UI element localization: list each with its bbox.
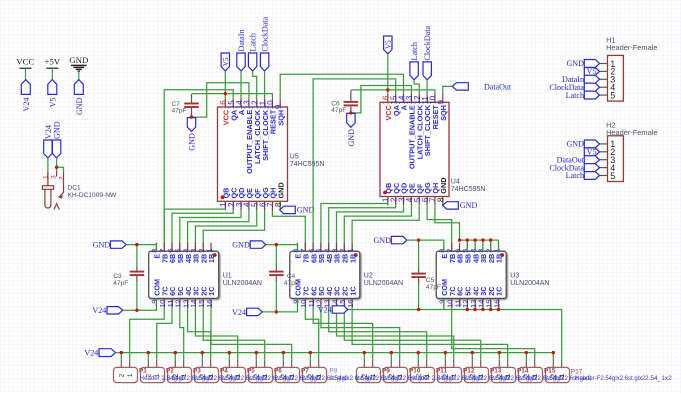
svg-text:U5: U5 bbox=[290, 154, 299, 161]
svg-text:V5: V5 bbox=[222, 57, 230, 66]
U1 top pin names bbox=[153, 254, 217, 263]
H1 pin 1 stub and flag GND bbox=[600, 59, 616, 69]
svg-text:1: 1 bbox=[235, 373, 242, 377]
svg-text:1B: 1B bbox=[495, 254, 504, 263]
svg-text:DataIn: DataIn bbox=[237, 29, 246, 51]
svg-text:1: 1 bbox=[154, 373, 161, 377]
svg-text:V24: V24 bbox=[44, 125, 53, 139]
svg-text:GND: GND bbox=[53, 121, 62, 139]
connector header P3 2-pin bbox=[195, 360, 219, 383]
wire U1 7C to connector column 1 bbox=[130, 307, 165, 360]
svg-text:V5: V5 bbox=[48, 98, 57, 108]
svg-text:GND: GND bbox=[373, 236, 391, 245]
wire V24 flag to U1 COM pin bbox=[123, 298, 157, 310]
svg-text:DataOut: DataOut bbox=[484, 82, 512, 91]
H1 pin 3 stub and flag DataIn bbox=[600, 75, 616, 85]
ground symbol GND bbox=[69, 55, 88, 80]
svg-text:U4: U4 bbox=[451, 179, 460, 186]
U1 reference designator and value bbox=[223, 273, 262, 287]
U2 bottom pin stubs bbox=[298, 298, 353, 307]
wire U4 QF to U2 1B bbox=[352, 205, 419, 251]
svg-text:P8: P8 bbox=[330, 367, 338, 374]
wire rail to connector 17 pin2 bbox=[552, 353, 554, 360]
H1 title bbox=[606, 36, 657, 53]
U3 bottom pin numbers bbox=[438, 300, 502, 308]
net flag DataOut bbox=[452, 83, 468, 90]
connector header P6 2-pin bbox=[276, 360, 300, 383]
svg-text:P3: P3 bbox=[193, 367, 201, 374]
U3 bottom pin names bbox=[440, 279, 504, 296]
U2 top pin names bbox=[294, 254, 358, 263]
wire U2 5C to connector bbox=[321, 307, 400, 360]
U2 reference designator and value bbox=[364, 273, 403, 287]
wire U5 QD to U1 4B bbox=[180, 210, 241, 251]
svg-text:GND: GND bbox=[69, 55, 88, 65]
svg-text:GND: GND bbox=[347, 129, 356, 147]
wire U2 4C to connector bbox=[329, 307, 427, 360]
wire V24 supply rail bbox=[116, 352, 554, 354]
connector header P14 2-pin bbox=[519, 360, 543, 383]
U5 bottom pin numbers bbox=[219, 202, 283, 207]
svg-text:V24: V24 bbox=[22, 98, 31, 112]
connector header P4 2-pin bbox=[222, 360, 246, 383]
svg-text:P5: P5 bbox=[247, 367, 255, 374]
H2 title bbox=[606, 121, 657, 138]
svg-text:8: 8 bbox=[274, 202, 283, 207]
svg-text:1B: 1B bbox=[348, 254, 357, 263]
power symbol +5V (net V5) bbox=[44, 57, 60, 80]
wire U4 SQH to DataOut flag bbox=[443, 86, 452, 93]
svg-text:1C: 1C bbox=[348, 287, 357, 296]
wires U3 input bus pin stubs bbox=[467, 240, 490, 251]
power symbol VCC (net V24) bbox=[16, 57, 34, 80]
svg-text:1: 1 bbox=[208, 373, 215, 377]
svg-text:+5V: +5V bbox=[44, 57, 60, 67]
svg-text:P14: P14 bbox=[517, 367, 529, 374]
svg-text:1: 1 bbox=[397, 373, 404, 377]
connector header P10 2-pin bbox=[411, 360, 435, 383]
connector header P9 2-pin bbox=[384, 360, 408, 383]
svg-text:GND: GND bbox=[439, 177, 448, 193]
U3 bottom pin stubs bbox=[444, 298, 499, 307]
svg-text:Latch: Latch bbox=[566, 171, 584, 180]
wire rail to connector 2 pin2 bbox=[147, 353, 149, 360]
wire U5 QE to U1 3B bbox=[188, 210, 249, 251]
svg-text:1: 1 bbox=[127, 373, 134, 377]
wire GND flag to U2 E pin bbox=[266, 245, 298, 252]
svg-text:1: 1 bbox=[205, 248, 214, 252]
svg-text:74HC595N: 74HC595N bbox=[451, 186, 486, 193]
svg-text:U2: U2 bbox=[364, 273, 373, 280]
svg-text:P13: P13 bbox=[490, 367, 502, 374]
svg-text:2: 2 bbox=[361, 373, 368, 377]
U4 bottom pin names bbox=[384, 177, 448, 193]
svg-text:GND: GND bbox=[460, 201, 478, 210]
header H2 Header-Female body bbox=[608, 136, 624, 182]
svg-text:1: 1 bbox=[451, 373, 458, 377]
svg-text:1: 1 bbox=[532, 373, 539, 377]
svg-text:1: 1 bbox=[559, 373, 566, 377]
connector header P9 2-pin bbox=[357, 360, 381, 383]
U5 top pin stubs bbox=[225, 98, 280, 107]
svg-text:VCC: VCC bbox=[16, 57, 34, 67]
svg-text:2: 2 bbox=[58, 176, 65, 180]
connector header P11 2-pin bbox=[438, 360, 462, 383]
U4 bottom pin stubs bbox=[388, 197, 443, 206]
svg-text:V5: V5 bbox=[587, 148, 597, 157]
wire U4 OUTPUT_ENABLE to GND at C6 bbox=[351, 86, 412, 113]
svg-text:5: 5 bbox=[610, 171, 615, 181]
U1 bottom pin names bbox=[153, 279, 217, 296]
svg-text:2.54_1x2: 2.54_1x2 bbox=[645, 375, 672, 382]
U4 bottom pin numbers bbox=[382, 197, 446, 202]
wire V24 flag to U2 COM pin bbox=[262, 298, 297, 312]
capacitor C6 47pF bbox=[344, 91, 359, 114]
connector header P0 2-pin bbox=[114, 360, 138, 383]
wire GND flag to U3 E pin bbox=[407, 240, 444, 251]
svg-text:47pF: 47pF bbox=[331, 107, 346, 114]
wire rail to connector 5 pin2 bbox=[228, 353, 230, 360]
svg-text:GND: GND bbox=[566, 59, 584, 68]
svg-text:1: 1 bbox=[262, 373, 269, 377]
svg-text:KH-DC1009-NW: KH-DC1009-NW bbox=[68, 192, 118, 199]
capacitor C3 47pF in U1 decoupling bbox=[136, 245, 138, 266]
svg-text:1C: 1C bbox=[495, 287, 504, 296]
svg-text:16: 16 bbox=[205, 300, 214, 308]
svg-text:ULN2004AN: ULN2004AN bbox=[510, 280, 549, 287]
svg-text:ClockData: ClockData bbox=[423, 25, 432, 60]
DC1 pin numbers bbox=[42, 175, 65, 180]
wire DC1 V24 pin1 bbox=[47, 158, 49, 172]
wire V5 to U4 VCC pin16 bbox=[387, 54, 389, 93]
svg-text:1: 1 bbox=[478, 373, 485, 377]
U5 reference designator and value bbox=[290, 154, 325, 168]
wires U3 output stubs to V24 row bbox=[467, 307, 498, 310]
U4 top pin names bbox=[384, 104, 448, 169]
wire GND flag to U1 E pin bbox=[126, 245, 156, 252]
U2 bottom pin names bbox=[294, 279, 358, 296]
svg-text:SQH: SQH bbox=[276, 110, 285, 126]
wire rail to connector 7 pin2 bbox=[282, 353, 284, 360]
svg-text:74HC595N: 74HC595N bbox=[290, 161, 325, 168]
svg-text:Latch: Latch bbox=[566, 91, 584, 100]
svg-text:Header-F2.54glx2.6st.glx2: Header-F2.54glx2.6st.glx2 bbox=[575, 376, 646, 382]
U1 top pin numbers bbox=[150, 248, 214, 252]
wire U3 7C to connector P15 bbox=[452, 307, 535, 360]
svg-text:P12: P12 bbox=[463, 367, 475, 374]
connector header P7 2-pin bbox=[303, 360, 327, 383]
floating label P17 and value 2.54_1x2 bbox=[571, 368, 672, 382]
darlington array U1 ULN2004AN body bbox=[149, 251, 219, 298]
H2 pin 1 stub and flag GND bbox=[600, 139, 616, 149]
wire Latch to U4 pin12 bbox=[414, 80, 419, 93]
connector header P15 2-pin bbox=[546, 360, 570, 383]
svg-text:V24: V24 bbox=[232, 308, 246, 317]
svg-text:GND: GND bbox=[75, 97, 84, 115]
wire U5 QC to U1 5B bbox=[172, 210, 233, 251]
svg-text:1: 1 bbox=[181, 373, 188, 377]
net flag V5 above U5 bbox=[221, 53, 229, 71]
wire U2 3C to connector bbox=[337, 307, 454, 360]
svg-text:ULN2004AN: ULN2004AN bbox=[223, 280, 262, 287]
svg-text:U1: U1 bbox=[223, 273, 232, 280]
U4 top pin stubs bbox=[388, 94, 443, 103]
svg-text:1: 1 bbox=[346, 248, 355, 252]
svg-text:P7: P7 bbox=[301, 367, 309, 374]
svg-text:P9: P9 bbox=[382, 367, 390, 374]
svg-text:16: 16 bbox=[346, 300, 355, 308]
wire U1 1C to connector column 7 bbox=[211, 307, 292, 360]
H1 pin 2 stub and flag V5 bbox=[600, 67, 616, 77]
svg-text:1: 1 bbox=[370, 373, 377, 377]
wire U5 QA detour left side bbox=[164, 90, 233, 251]
wire U2 1C to connector bbox=[352, 307, 508, 360]
svg-text:GND: GND bbox=[297, 206, 315, 215]
svg-text:P15: P15 bbox=[544, 367, 556, 374]
wire U5 QB to U1 6B bbox=[164, 209, 225, 251]
header H1 Header-Female body bbox=[608, 55, 624, 101]
wire U4 QG to U3 7B bbox=[427, 205, 452, 251]
wire rail to connector 15 pin2 bbox=[498, 353, 500, 360]
svg-text:1C: 1C bbox=[207, 287, 216, 296]
svg-text:P1: P1 bbox=[139, 367, 147, 374]
U1 top pin stubs bbox=[156, 243, 211, 252]
svg-text:8: 8 bbox=[437, 197, 446, 202]
H1 pin 5 stub and flag Latch bbox=[600, 90, 616, 100]
svg-text:GND: GND bbox=[232, 240, 250, 249]
wire U5 QH to U2 7B bbox=[272, 210, 305, 251]
connector pin digits bbox=[118, 373, 565, 377]
wire rail to connector 6 pin2 bbox=[255, 353, 257, 360]
svg-text:GND: GND bbox=[566, 140, 584, 149]
svg-text:U3: U3 bbox=[510, 273, 519, 280]
wire rail to connector 16 pin2 bbox=[525, 353, 527, 360]
svg-text:1: 1 bbox=[424, 373, 431, 377]
U4 reference designator and value bbox=[451, 179, 486, 193]
svg-text:1: 1 bbox=[505, 373, 512, 377]
shift register U5 74HC595N body bbox=[218, 107, 288, 201]
net flag GND at U4 pin8 bbox=[442, 202, 444, 206]
capacitor C4 47pF in U2 decoupling bbox=[275, 245, 277, 266]
svg-text:Latch: Latch bbox=[410, 42, 419, 60]
connector reference labels bbox=[139, 367, 556, 374]
U1 bottom pin numbers bbox=[150, 300, 214, 308]
wire U1 3C to connector column 5 bbox=[195, 307, 237, 360]
svg-text:GND: GND bbox=[93, 240, 111, 249]
wire U1 2C to connector column 6 bbox=[203, 307, 265, 360]
wire ClockData to U5 pin11 SHIFT_CLOCK bbox=[264, 71, 266, 98]
U4 top pin numbers bbox=[382, 95, 446, 104]
svg-text:47pF: 47pF bbox=[113, 280, 128, 287]
svg-text:GND: GND bbox=[276, 182, 285, 198]
wire U4 QC to U2 4B bbox=[329, 205, 396, 251]
wire rail to connector 4 pin2 bbox=[201, 353, 203, 360]
wire U3 COM stub bbox=[443, 298, 445, 309]
connector header P1 2-pin bbox=[141, 360, 165, 383]
wire rail to connector 14 pin2 bbox=[471, 353, 473, 360]
U2 bottom pin numbers bbox=[291, 300, 355, 308]
wire U1 6C to connector column 2 bbox=[157, 307, 172, 360]
wire DC1 GND pin3/pin2 bbox=[56, 158, 58, 171]
wire rail to connector 3 pin2 bbox=[174, 353, 176, 360]
wire rail to connector 10 pin2 bbox=[363, 353, 365, 360]
svg-text:2: 2 bbox=[118, 373, 125, 377]
capacitor C7 47pF bbox=[184, 94, 199, 117]
wire U2 7C to connector bbox=[305, 307, 318, 360]
svg-text:9: 9 bbox=[274, 104, 283, 109]
svg-text:Header-Female: Header-Female bbox=[606, 43, 657, 52]
svg-text:ULN2004AN: ULN2004AN bbox=[364, 280, 403, 287]
connector value texts bbox=[140, 375, 592, 382]
shift register U4 74HC595N body bbox=[380, 102, 449, 196]
svg-text:P17: P17 bbox=[571, 368, 583, 375]
capacitor C5 47pF in U3 decoupling bbox=[418, 240, 420, 268]
H2 pin 5 stub and flag Latch bbox=[600, 171, 616, 181]
wire U5 OUTPUT_ENABLE to GND at C7 bbox=[192, 83, 249, 117]
wire U2 2C to connector bbox=[344, 307, 480, 360]
svg-text:Header-Female: Header-Female bbox=[606, 128, 657, 137]
U3 top pin numbers bbox=[438, 248, 502, 252]
wire U4 VCC net to RESET pin10 and C6 top bbox=[351, 90, 435, 94]
connector header P13 2-pin bbox=[492, 360, 516, 383]
svg-text:1B: 1B bbox=[207, 254, 216, 263]
svg-text:ClockData: ClockData bbox=[261, 16, 270, 51]
U1 bottom pin stubs bbox=[156, 298, 211, 307]
svg-text:1: 1 bbox=[316, 373, 323, 377]
wire rail to connector 13 pin2 bbox=[444, 353, 446, 360]
svg-text:16: 16 bbox=[492, 300, 501, 308]
net flag GND below C7 bbox=[187, 118, 195, 132]
svg-text:GND: GND bbox=[188, 133, 197, 151]
H2 pin 3 stub and flag DataOut bbox=[600, 155, 616, 165]
wire U5 VCC net to RESET pin10 and C7 top bbox=[192, 94, 273, 99]
svg-text:Latch: Latch bbox=[249, 33, 258, 51]
wire rail to connector 11 pin2 bbox=[390, 353, 392, 360]
svg-text:5: 5 bbox=[610, 90, 615, 100]
svg-text:1: 1 bbox=[289, 373, 296, 377]
svg-text:V24: V24 bbox=[318, 305, 332, 314]
svg-text:V5: V5 bbox=[385, 40, 393, 49]
wire V24 row U3: COM and paralleled outputs to P16 bbox=[348, 310, 562, 360]
U5 top pin names bbox=[222, 109, 286, 174]
U3 top pin stubs bbox=[444, 243, 499, 252]
U3 reference designator and value bbox=[510, 273, 549, 287]
wire U1 5C to connector column 3 bbox=[180, 307, 184, 360]
darlington array U3 ULN2004AN body bbox=[436, 251, 506, 298]
wire rail to connector 1 pin2 bbox=[120, 353, 122, 360]
H2 pin 4 stub and flag ClockData bbox=[600, 163, 616, 173]
svg-text:C4: C4 bbox=[287, 273, 296, 280]
wire V5 to U5 VCC pin16 bbox=[224, 71, 226, 98]
wire U4 QE to U2 2B bbox=[344, 205, 411, 251]
wire U2 6C to connector bbox=[313, 307, 373, 360]
svg-text:47pF: 47pF bbox=[172, 107, 187, 114]
wire DataIn to U5 pin14 A bbox=[240, 71, 242, 98]
U3 grounded input bus 6B-1B bbox=[460, 240, 499, 251]
wire U5 QF to U1 2B bbox=[195, 210, 256, 251]
svg-text:1: 1 bbox=[492, 248, 501, 252]
svg-text:P6: P6 bbox=[274, 367, 282, 374]
wire U4 QH to U3 6B input bus bbox=[435, 205, 460, 240]
U3 top pin names bbox=[440, 254, 504, 263]
wire U5 SQH cascade to U4 pin14 A bbox=[280, 74, 403, 98]
connector header P12 2-pin bbox=[465, 360, 489, 383]
svg-text:P10: P10 bbox=[409, 367, 421, 374]
H2 pin 2 stub and flag V5 bbox=[600, 147, 616, 157]
wire U4 QA detour to U2 6B bbox=[313, 79, 396, 251]
DC1 reference designator and value bbox=[68, 185, 118, 199]
darlington array U2 ULN2004AN body bbox=[290, 251, 360, 298]
net flag GND at U5 pin8 bbox=[279, 206, 281, 210]
connector header P2 2-pin bbox=[168, 360, 192, 383]
svg-text:C3: C3 bbox=[113, 273, 122, 280]
svg-text:V24: V24 bbox=[84, 349, 98, 358]
junction dots overlay bbox=[55, 88, 555, 354]
net flag V5 above U4 bbox=[384, 36, 392, 54]
svg-text:DC1: DC1 bbox=[68, 185, 82, 192]
wire U4 QB to U2 5B bbox=[321, 204, 388, 252]
wire Latch to U5 pin12 LATCH_CLOCK bbox=[253, 71, 257, 98]
wire U1 4C to connector column 4 bbox=[188, 307, 211, 360]
U2 top pin stubs bbox=[298, 243, 353, 252]
svg-text:P11: P11 bbox=[436, 367, 447, 374]
wire U4 QD to U2 3B bbox=[337, 205, 404, 251]
wire U5 QG to U1 1B bbox=[203, 210, 264, 251]
U5 top pin numbers bbox=[219, 100, 283, 109]
wire rail to connector 8 pin2 bbox=[309, 353, 311, 360]
U5 bottom pin names bbox=[222, 182, 286, 198]
DC barrel jack DC1 symbol bbox=[42, 171, 63, 210]
connector header P5 2-pin bbox=[249, 360, 273, 383]
svg-text:P4: P4 bbox=[220, 367, 228, 374]
wire ClockData to U4 pin11 bbox=[426, 80, 428, 93]
H1 pin 4 stub and flag ClockData bbox=[600, 83, 616, 93]
svg-text:9: 9 bbox=[437, 100, 446, 105]
U2 top pin numbers bbox=[291, 248, 355, 252]
svg-text:47pF: 47pF bbox=[284, 280, 299, 287]
svg-text:P2: P2 bbox=[166, 367, 174, 374]
wire rail to connector 12 pin2 bbox=[417, 353, 419, 360]
net flag GND below C6 bbox=[347, 113, 355, 127]
U5 bottom pin stubs bbox=[225, 201, 280, 210]
svg-text:C5: C5 bbox=[426, 277, 435, 284]
svg-text:SQH: SQH bbox=[439, 105, 448, 121]
svg-text:V24: V24 bbox=[92, 306, 106, 315]
svg-text:47pF: 47pF bbox=[426, 284, 441, 291]
